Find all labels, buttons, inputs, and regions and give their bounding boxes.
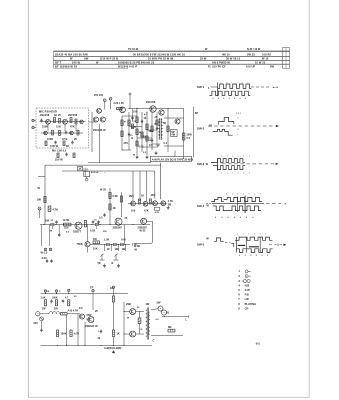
svg-text:MIC P.B HEAD: MIC P.B HEAD — [39, 109, 57, 113]
resistor R25 — [109, 204, 111, 210]
mesh extra caps — [131, 117, 133, 119]
transistor Q8 — [120, 107, 126, 113]
svg-text:601: 601 — [256, 342, 261, 345]
svg-text:1K: 1K — [154, 124, 157, 126]
block1 bottom link wire — [88, 162, 151, 164]
ground G20 — [104, 264, 106, 266]
svg-text:1: 1 — [249, 173, 250, 175]
wire drop into note box — [174, 151, 176, 157]
svg-text:4: 4 — [223, 97, 224, 100]
svg-text:56K: 56K — [149, 130, 154, 133]
resistor R7 — [63, 141, 65, 146]
waveform SW-2 arrow — [276, 125, 278, 127]
svg-text:2SC458: 2SC458 — [68, 114, 78, 117]
svg-text:N.B: N.B — [245, 283, 250, 287]
svg-text:P.B: P.B — [245, 293, 249, 297]
transistor Q9 — [150, 106, 156, 112]
transistor Q40 — [79, 314, 84, 319]
svg-text:2SA30 40 MA 100-30 R/W: 2SA30 40 MA 100-30 R/W — [55, 52, 88, 56]
node cluster left — [38, 207, 41, 210]
svg-text:25V 100: 25V 100 — [94, 94, 104, 97]
right branch vertical — [183, 109, 185, 160]
resistor R42 — [68, 300, 70, 306]
junctions bottom rail — [57, 345, 58, 346]
block3 bottom rail — [41, 345, 153, 347]
wire from enclosure — [89, 121, 97, 123]
battery terminal B1 — [85, 178, 88, 181]
svg-text:SW-4: SW-4 — [197, 204, 205, 208]
svg-text:5: 5 — [238, 129, 239, 131]
svg-text:5K: 5K — [98, 262, 101, 265]
svg-text:1: 1 — [221, 156, 222, 158]
block2 bus right drop inner — [154, 171, 156, 199]
svg-text:SW-2: SW-2 — [197, 127, 205, 131]
capacitor C23 — [58, 234, 60, 236]
terminal TP stem — [129, 95, 131, 108]
resistor R1 — [54, 118, 56, 123]
block1 inner wire row1 — [40, 121, 86, 123]
waveform SW-1 axis — [211, 86, 218, 88]
transistor Q2 — [63, 119, 68, 124]
svg-text:1.5K: 1.5K — [104, 239, 110, 242]
resistor R4 — [52, 130, 54, 135]
waveform SW-5 axis vertical 2 — [245, 237, 247, 252]
resistor R23 — [84, 220, 86, 227]
svg-text:W 10: W 10 — [262, 57, 269, 61]
waveform SW-5 axis vertical 3 — [259, 237, 261, 252]
svg-text:1: 1 — [238, 156, 239, 158]
svg-text:4: 4 — [234, 97, 235, 100]
resistor R6 — [45, 141, 47, 146]
svg-text:1: 1 — [221, 82, 222, 84]
note box — [150, 156, 191, 161]
capacitor C22 — [103, 214, 105, 216]
svg-text:36 W 08 15: 36 W 08 15 — [226, 57, 241, 61]
svg-text:W 05: W 05 — [140, 230, 147, 233]
svg-text:100K: 100K — [61, 332, 67, 335]
table rule 4 — [54, 63, 290, 65]
junction dots on bus — [43, 224, 44, 225]
wire branch x152 — [151, 112, 153, 150]
preamp row wire — [128, 203, 167, 205]
svg-text:47K: 47K — [144, 209, 149, 212]
svg-text:1.5K: 1.5K — [41, 298, 46, 300]
svg-text:A·B 4.7K: A·B 4.7K — [68, 308, 79, 312]
mesh extra verticals — [156, 112, 158, 148]
resistor R14c — [146, 136, 148, 141]
svg-text:1: 1 — [237, 82, 238, 84]
svg-text:TP: TP — [90, 285, 94, 289]
block2 left rail — [44, 165, 46, 224]
svg-text:2W: 2W — [157, 300, 161, 304]
resistor R20 — [44, 197, 46, 203]
speaker box SPKR — [171, 130, 178, 137]
capacitor C1b — [65, 131, 67, 133]
svg-text:0.5: 0.5 — [149, 144, 153, 147]
svg-text:10 W 25: 10 W 25 — [255, 60, 266, 64]
wire transformer to output — [151, 309, 159, 311]
mesh extra links — [147, 129, 157, 131]
resistor R48 — [168, 329, 175, 332]
svg-text:100: 100 — [131, 209, 136, 212]
waveform SW-5 mid bar 2 — [249, 246, 259, 248]
svg-text:BF 12345/6 W TA: BF 12345/6 W TA — [55, 64, 77, 68]
svg-text:100: 100 — [133, 111, 138, 114]
transistor Q24 — [153, 201, 158, 206]
svg-text:A·W PLAY 12V DC·B TAPE 25·W10: A·W PLAY 12V DC·B TAPE 25·W10 — [152, 157, 194, 161]
svg-text:1: 1 — [249, 156, 250, 158]
transistor Q20 — [75, 222, 82, 229]
table right end box — [283, 48, 290, 69]
svg-text:SP: SP — [195, 112, 199, 115]
resistor R21 — [48, 206, 51, 212]
svg-text:N 30 / 10 W: N 30 / 10 W — [247, 48, 261, 51]
terminal V1 — [104, 99, 107, 102]
terminal V13 — [92, 289, 94, 291]
inner verticals — [47, 124, 49, 132]
wire driver mid — [139, 312, 141, 319]
resistor R5b — [77, 130, 79, 135]
waveform SW-5 lower trace — [236, 249, 273, 253]
svg-text:S.W: S.W — [245, 288, 251, 292]
svg-text:1W: 1W — [122, 248, 126, 251]
svg-text:0.05 W: 0.05 W — [50, 145, 59, 148]
svg-text:FL 515 TK CF: FL 515 TK CF — [208, 64, 226, 68]
capacitor C40 — [62, 300, 64, 302]
svg-text:W: W — [96, 60, 99, 64]
svg-text:5.6K: 5.6K — [113, 195, 119, 198]
svg-text:BL: BL — [166, 312, 170, 315]
waveform SW-3 dash lead out — [222, 163, 276, 165]
right rail lower — [124, 225, 126, 245]
block2 supply bus lower — [62, 170, 155, 172]
waveform SW-2 centre dash line — [208, 125, 279, 127]
resistor R46 — [70, 330, 72, 337]
table left edge vertical — [53, 51, 55, 68]
table rule 3 — [54, 59, 290, 61]
resistor R2 — [70, 118, 72, 123]
resistor R45 — [56, 330, 58, 337]
svg-text:0.5: 0.5 — [79, 307, 83, 310]
svg-text:●—x: ●—x — [273, 86, 279, 89]
svg-text:2SB367: 2SB367 — [113, 226, 123, 230]
svg-text:2SC: 2SC — [129, 195, 134, 198]
transistor Q11 — [175, 119, 180, 124]
resistor R44 — [61, 313, 68, 315]
svg-text:2.2K 1.5K: 2.2K 1.5K — [114, 103, 125, 105]
capacitor C2 — [54, 141, 56, 143]
output line upper — [166, 316, 189, 318]
resistor R27 — [138, 199, 140, 204]
terminal V11 — [55, 290, 57, 292]
svg-text:245 W: 245 W — [72, 60, 80, 64]
input terminal J1 — [36, 312, 40, 316]
wire branch x147 — [146, 112, 148, 155]
svg-text:4: 4 — [213, 97, 214, 100]
capacitor C3 — [128, 133, 130, 135]
waveform SW-1 upper trace — [218, 84, 252, 88]
svg-text:1000000 B 25 PB 840 HK 25: 1000000 B 25 PB 840 HK 25 — [118, 60, 155, 64]
input wire — [40, 313, 50, 315]
capacitor C4b — [151, 139, 153, 141]
svg-text:SW-3: SW-3 — [197, 162, 205, 166]
svg-text:C: C — [153, 340, 155, 343]
terminal V2 — [109, 98, 112, 101]
capacitor C20 — [92, 221, 94, 223]
transistor Q43 driver — [130, 331, 136, 337]
waveform SW-4 lead dashes — [206, 202, 211, 204]
svg-text:1M: 1M — [93, 238, 97, 241]
resistor R43 — [112, 296, 114, 302]
waveform SW-2 lower pulse — [213, 130, 233, 136]
mesh extra resistors — [156, 120, 158, 125]
wire below Q26 — [87, 247, 89, 253]
svg-text:2SC: 2SC — [151, 194, 156, 197]
waveform SW-5 arrow — [284, 244, 286, 246]
svg-text:30 BF25/250 8 FW 215/40 W 2150: 30 BF25/250 8 FW 215/40 W 2150 HK 10 — [133, 52, 185, 56]
capacitor C1 — [40, 119, 42, 121]
wire vertical x168 — [167, 109, 169, 153]
ground G21 — [118, 264, 120, 266]
svg-text:100K: 100K — [52, 298, 58, 300]
transistor Q10 — [159, 110, 164, 115]
trimmer VR2 — [114, 254, 119, 260]
transformer T1 right winding — [161, 119, 162, 138]
block1 inner wire row2 — [41, 132, 83, 134]
ground G2 — [155, 151, 157, 153]
svg-text:1: 1 — [232, 156, 233, 158]
waveform SW-5 main upper trace — [235, 237, 272, 240]
svg-text:5K: 5K — [163, 122, 166, 125]
resistor R1b — [59, 119, 61, 124]
transistor Q42 driver — [130, 309, 136, 315]
wire Q41 region — [92, 294, 94, 311]
bus stubs down — [41, 225, 43, 247]
block2 col x120 — [121, 192, 123, 217]
svg-text:OF T: OF T — [55, 60, 62, 64]
svg-text:TO 10-W: TO 10-W — [128, 48, 139, 51]
ground G22 — [51, 259, 53, 261]
page left edge — [28, 0, 30, 398]
svg-text:SW-1: SW-1 — [197, 85, 205, 89]
waveform SW-3 arrow — [276, 163, 278, 165]
resistor R12 — [136, 117, 138, 123]
svg-text:1K: 1K — [113, 207, 116, 210]
resistor R22 — [64, 223, 72, 226]
svg-text:2W 25: 2W 25 — [247, 52, 255, 56]
wire Q25 to corner — [147, 220, 153, 222]
svg-text:1: 1 — [242, 82, 243, 84]
svg-text:47K: 47K — [70, 125, 75, 128]
wire drivers to transformer — [136, 311, 144, 313]
waveform SW-5 end tick — [277, 243, 279, 246]
svg-text:4: 4 — [240, 97, 241, 100]
svg-text:B: B — [112, 262, 114, 265]
transistor Q21 — [115, 218, 122, 225]
svg-text:4.7K: 4.7K — [53, 207, 59, 211]
svg-text:1: 1 — [227, 173, 228, 175]
block2 lower wire — [90, 244, 130, 246]
mesh junction dots — [136, 108, 137, 109]
waveform SW-3 lower trace — [213, 166, 245, 170]
svg-text:100 R2: 100 R2 — [262, 52, 271, 56]
block1 wire vertical — [91, 112, 93, 152]
svg-text:1: 1 — [243, 173, 244, 175]
wire branch x142 — [141, 112, 143, 152]
svg-text:4.7K: 4.7K — [155, 211, 160, 214]
transistor Q6 — [93, 117, 98, 122]
resistor R24 — [109, 193, 111, 199]
ground G40 — [41, 328, 43, 330]
block3 top rail — [41, 293, 129, 295]
transistor Q5 — [70, 131, 74, 135]
svg-text:2SB324 W: 2SB324 W — [85, 324, 98, 328]
terminal V10 — [44, 290, 46, 292]
svg-text:SW-5: SW-5 — [197, 243, 205, 247]
transistor Q1 — [46, 119, 51, 124]
svg-text:600: 600 — [34, 322, 39, 325]
waveform SW-5 step down — [231, 244, 234, 248]
resistor R17b — [183, 133, 185, 140]
svg-text:1K: 1K — [141, 195, 144, 198]
resistor R3 — [75, 119, 77, 124]
transistor Q23 — [143, 201, 148, 206]
output line upper end tick — [188, 315, 190, 317]
resistor R40 — [44, 300, 46, 306]
ground G25 — [167, 206, 169, 208]
transistor Q41 — [88, 317, 94, 323]
svg-text:4.5C: 4.5C — [42, 256, 48, 260]
svg-text:W 25: W 25 — [100, 188, 107, 191]
svg-text:47 B: 47 B — [62, 138, 68, 141]
wire x113 mid — [113, 302, 115, 330]
page right edge — [308, 0, 310, 398]
transistor Q3 — [80, 120, 84, 124]
table bottom partial rule — [54, 67, 129, 69]
waveform SW-5 axis vertical — [235, 237, 237, 252]
bottom-left cluster terminals — [44, 248, 47, 251]
resistor R9 — [121, 120, 123, 126]
coil L1 — [49, 312, 60, 314]
transformer T2 right winding — [148, 312, 150, 335]
block2 bus right drop outer — [160, 163, 162, 200]
left margin terminal P2 — [32, 126, 34, 128]
transistor Q26 — [85, 242, 90, 247]
svg-text:1: 1 — [238, 173, 239, 175]
svg-text:1K 25: 1K 25 — [54, 114, 61, 117]
svg-text:1: 1 — [221, 173, 222, 175]
svg-text:4: 4 — [229, 97, 230, 100]
wire bus to Q26 — [87, 225, 89, 242]
svg-text:1K: 1K — [66, 145, 69, 148]
svg-text:2SC458: 2SC458 — [146, 100, 156, 104]
svg-text:1: 1 — [226, 82, 227, 84]
svg-text:0.5: 0.5 — [187, 137, 191, 140]
svg-text:A W: A W — [121, 239, 126, 242]
svg-text:750K: 750K — [77, 242, 83, 246]
waveform SW-5 dash gap — [225, 241, 231, 243]
resistor R10 — [121, 131, 123, 137]
waveform SW-1 dashed lead out — [251, 86, 271, 88]
svg-text:AN 6 PW25 W: AN 6 PW25 W — [212, 60, 230, 64]
block3 extra junctions — [123, 311, 124, 312]
waveform SW-2 upper pulse — [218, 117, 233, 124]
svg-text:1W: 1W — [146, 303, 150, 306]
svg-text:12.5K: 12.5K — [63, 218, 70, 222]
svg-text:25V: 25V — [124, 142, 129, 145]
waveform SW-4 upper trace — [224, 197, 262, 201]
waveform SW-3 axis — [217, 158, 219, 170]
waveform SW-1 lower trace — [210, 91, 251, 95]
svg-text:12V: 12V — [83, 168, 88, 171]
left margin terminal P1 — [32, 119, 34, 121]
resistor R29 — [93, 241, 100, 244]
lower stub 1 — [104, 245, 106, 251]
svg-text:W-1.5: W-1.5 — [41, 250, 48, 254]
capacitor C24 — [46, 260, 48, 262]
capacitor C41 — [100, 330, 102, 332]
waveform SW-4 divider vertical — [244, 196, 246, 214]
svg-text:MA 1.5K 0.5: MA 1.5K 0.5 — [52, 150, 67, 153]
svg-text:10K: 10K — [37, 198, 42, 202]
svg-text:10K: 10K — [93, 247, 98, 250]
transistor Q4 — [44, 131, 48, 135]
fuse box F1 — [84, 171, 90, 176]
resistor R17 — [57, 153, 59, 158]
wire right section upper — [164, 117, 184, 119]
lower stub 3 — [118, 245, 120, 251]
wire branch x137 — [136, 109, 138, 156]
svg-text:10 90% PH 25 W 08: 10 90% PH 25 W 08 — [148, 57, 174, 61]
transistor Q6b — [97, 108, 102, 113]
output terminal O2 — [161, 310, 166, 315]
transformer T1 core — [159, 118, 161, 140]
waveform SW-4 left staircase — [211, 197, 224, 201]
resistor R16 — [167, 126, 169, 132]
svg-text:A·B(W) B·B(R): A·B(W) B·B(R) — [104, 347, 121, 350]
capacitor C21 — [97, 221, 99, 223]
svg-text:1: 1 — [243, 156, 244, 158]
svg-text:2SB77: 2SB77 — [73, 230, 81, 234]
mic symbol M1 — [40, 317, 44, 321]
waveform SW-5 lead pulse — [214, 238, 224, 241]
waveform SW-3 upper trace — [211, 159, 245, 163]
svg-text:2SC458: 2SC458 — [40, 114, 50, 117]
svg-text:25V W: 25V W — [55, 158, 63, 161]
transistor Q25 — [141, 218, 147, 224]
wire block3 left rail — [40, 314, 42, 320]
wire left rail down — [40, 314, 42, 346]
block2 mid column — [109, 188, 111, 225]
svg-text:1W: 1W — [45, 218, 49, 222]
svg-text:4W: 4W — [171, 134, 175, 137]
resistor R17c — [73, 153, 75, 158]
svg-text:25 W: 25 W — [200, 57, 207, 61]
svg-text:B: B — [132, 137, 134, 140]
transistor Q7 — [100, 117, 105, 122]
resistor R14a — [141, 132, 143, 137]
svg-text:2W: 2W — [270, 64, 275, 68]
capacitor C2b — [71, 141, 73, 143]
svg-text:AW: AW — [84, 57, 89, 61]
svg-text:4: 4 — [218, 97, 219, 100]
table rule 2 — [54, 55, 290, 57]
wire branch x122 — [121, 116, 123, 150]
svg-text:1: 1 — [238, 118, 239, 120]
small box under row — [154, 207, 159, 210]
svg-text:1 1 1: 1 1 1 — [236, 113, 242, 115]
resistor R8 — [117, 108, 123, 110]
